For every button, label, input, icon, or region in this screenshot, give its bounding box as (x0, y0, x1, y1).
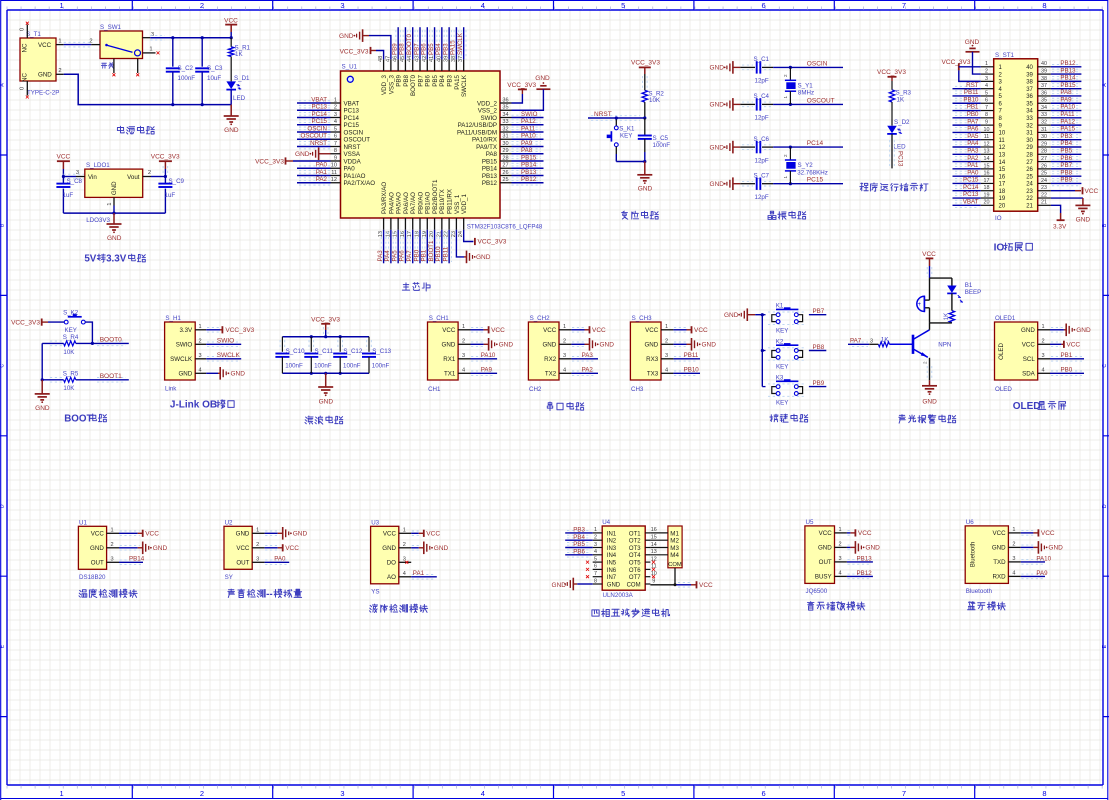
svg-text:1: 1 (563, 324, 566, 330)
svg-text:VCC: VCC (224, 18, 238, 25)
svg-text:2: 2 (783, 154, 788, 157)
svg-text:GND: GND (600, 342, 615, 349)
wire net PB8 from ST1 pin 25 (1051, 169, 1082, 178)
svg-text:PB13: PB13 (857, 555, 873, 562)
svg-text:IO: IO (994, 242, 1005, 253)
svg-text:3: 3 (151, 32, 154, 38)
svg-text:10: 10 (331, 163, 337, 169)
wire net SWCLK to U1 pin 37 (457, 27, 466, 59)
svg-text:3: 3 (1041, 353, 1044, 359)
svg-text:GND: GND (224, 127, 239, 134)
title 液体检测模块 (369, 604, 427, 612)
svg-text:35: 35 (1041, 98, 1047, 104)
wire net PB14 from U1 pin 3 (119, 556, 145, 565)
wire net PB0 to ST1 pin 8 (953, 111, 981, 120)
svg-text:12: 12 (331, 177, 337, 183)
wire net PA1 to ST1 pin 15 (953, 162, 981, 171)
ground GND at LDO (107, 213, 122, 242)
svg-text:PA4/AO: PA4/AO (388, 192, 395, 214)
svg-text:S_C6: S_C6 (754, 136, 770, 143)
svg-text:VCC_3V3: VCC_3V3 (478, 239, 507, 246)
svg-text:PA3: PA3 (377, 250, 384, 262)
svg-text:VCC_3V3: VCC_3V3 (942, 59, 971, 66)
svg-text:3: 3 (340, 789, 344, 798)
pushbutton K1 KEY, net PB7 (762, 303, 826, 335)
svg-text:3: 3 (198, 353, 201, 359)
power VCC_3V3 at BOOT (11, 319, 64, 327)
wire net PB4 to U1 pin 40 (435, 27, 444, 59)
svg-text:PA12: PA12 (1060, 118, 1075, 125)
svg-text:GND: GND (1048, 545, 1063, 552)
svg-text:PA0: PA0 (316, 162, 328, 169)
svg-text:PC15: PC15 (963, 177, 979, 184)
wire net PA10 from U6 pin 3 (1021, 555, 1052, 564)
svg-text:PA1: PA1 (316, 169, 328, 176)
svg-text:21: 21 (1026, 204, 1033, 210)
svg-text:S_D1: S_D1 (234, 75, 250, 82)
svg-text:CH2: CH2 (529, 386, 542, 393)
svg-text:Vin: Vin (88, 174, 97, 181)
wire net PA9 from ST1 pin 35 (1051, 96, 1082, 105)
wire net PB0 from U1 pin 18 (413, 230, 422, 263)
svg-text:22: 22 (1026, 196, 1033, 202)
svg-text:2: 2 (594, 535, 597, 541)
svg-text:OT2: OT2 (629, 539, 641, 545)
svg-text:C: C (1102, 364, 1108, 368)
pushbutton K3 KEY, net PB9 (762, 375, 826, 407)
svg-text:YS: YS (371, 589, 379, 596)
wire net PB0 from OLED SDA (1050, 367, 1084, 376)
svg-text:GND: GND (153, 545, 168, 552)
pushbutton K2 KEY (63, 309, 92, 343)
power VCC_3V3 at U1 VDD_2 pin 36 (507, 82, 536, 103)
svg-text:U2: U2 (225, 519, 233, 526)
svg-text:PB1/AO: PB1/AO (425, 191, 432, 214)
svg-text:3: 3 (838, 556, 841, 562)
wire net PB9 from ST1 pin 24 (1051, 177, 1082, 186)
display OLED1 (995, 315, 1051, 393)
svg-text:VCC_3V3: VCC_3V3 (340, 49, 369, 56)
svg-text:TXD: TXD (993, 559, 1006, 566)
svg-text:OT5: OT5 (629, 561, 641, 567)
svg-text:3.3V: 3.3V (179, 327, 193, 334)
svg-text:3: 3 (563, 353, 566, 359)
no-connect at U4 IN5 (586, 561, 589, 564)
svg-text:GND: GND (499, 342, 514, 349)
svg-text:OSCOUT: OSCOUT (807, 97, 835, 104)
power 3.3V at ST1 pin 21 (1051, 205, 1067, 230)
svg-text:GND: GND (535, 75, 550, 82)
svg-text:3: 3 (340, 1, 344, 10)
svg-text:Bluetooth: Bluetooth (966, 588, 993, 595)
svg-text:14: 14 (999, 160, 1006, 166)
svg-text:34: 34 (1026, 109, 1033, 115)
svg-text:VCC: VCC (442, 327, 456, 334)
svg-text:100nF: 100nF (314, 362, 332, 369)
svg-text:GND: GND (724, 312, 739, 319)
svg-text:2: 2 (148, 170, 151, 176)
svg-text:38: 38 (1041, 76, 1047, 82)
module U2 SY (224, 519, 265, 581)
LED D2 (887, 119, 910, 151)
svg-text:5: 5 (334, 126, 337, 132)
buzzer B1 BEEP (917, 278, 982, 323)
svg-text:GND: GND (607, 582, 621, 588)
wire net PA3 from U1 pin 13 (377, 230, 386, 263)
svg-text:2: 2 (200, 1, 204, 10)
svg-text:31: 31 (502, 134, 508, 140)
svg-text:10K: 10K (63, 349, 75, 356)
svg-text:1: 1 (462, 324, 465, 330)
svg-text:0: 0 (20, 28, 26, 31)
wire net PB4 to U4 IN2 (565, 534, 593, 543)
svg-text:VCC: VCC (592, 327, 606, 334)
capacitor C7 12pF with ground, net PC15 (710, 173, 843, 201)
wire net PB8 to U1 pin 45 (399, 27, 408, 59)
pushbutton K1 KEY (607, 116, 645, 161)
svg-text:5: 5 (621, 1, 625, 10)
wire net PA15 to U1 pin 38 (450, 27, 459, 59)
crystal Y1 8MHz (783, 66, 814, 106)
svg-text:PA8: PA8 (1060, 89, 1072, 96)
wire net PA7 to ST1 pin 9 (953, 118, 981, 127)
wire net PB4 from ST1 pin 29 (1051, 140, 1082, 149)
svg-text:PB4: PB4 (573, 534, 585, 541)
power VCC_3V3 at run LED (877, 69, 906, 90)
svg-text:S_CH2: S_CH2 (530, 315, 551, 322)
svg-text:8: 8 (594, 578, 597, 584)
svg-text:PA6: PA6 (967, 126, 979, 133)
svg-text:PC14: PC14 (312, 111, 328, 118)
svg-text:11: 11 (999, 138, 1006, 144)
wire net PB10 from CH3 TX (630, 315, 673, 393)
svg-text:PA7: PA7 (850, 338, 862, 345)
svg-text:Vout: Vout (127, 174, 140, 181)
svg-text:NRST: NRST (344, 144, 361, 151)
svg-text:3: 3 (76, 170, 79, 176)
ground GND at BOOT (35, 380, 50, 412)
svg-text:GND: GND (434, 545, 449, 552)
svg-text:SCL: SCL (1023, 356, 1036, 363)
svg-text:PB7: PB7 (413, 43, 420, 55)
svg-text:ULN2003A: ULN2003A (603, 592, 634, 599)
svg-text:12pF: 12pF (755, 157, 769, 164)
svg-text:2: 2 (403, 542, 406, 548)
svg-text:OT7: OT7 (629, 575, 641, 581)
wire net PA5 to ST1 pin 11 (953, 133, 981, 142)
svg-text:VCC: VCC (426, 531, 440, 538)
wire net PB13 from U5 pin 3 (847, 555, 873, 564)
svg-text:BOOT1: BOOT1 (428, 240, 435, 262)
ground GND at U1 VSS_3 pin 47 (339, 29, 391, 59)
svg-text:4: 4 (481, 1, 485, 10)
svg-text:PB4: PB4 (435, 43, 442, 55)
svg-text:100nF: 100nF (178, 75, 196, 82)
wire net BOOT1 from U1 pin 20 (428, 230, 437, 263)
ground GND at filter (318, 373, 333, 405)
wire net PB5 from ST1 pin 28 (1051, 147, 1082, 156)
svg-text:1uF: 1uF (165, 192, 176, 199)
svg-text:15: 15 (651, 535, 657, 541)
svg-text:VCC_3V3: VCC_3V3 (255, 158, 284, 165)
resistor 1K at base (878, 337, 889, 347)
svg-text:VSS_2: VSS_2 (478, 108, 498, 115)
svg-text:VCC: VCC (1041, 530, 1055, 537)
svg-text:PB11/RX: PB11/RX (447, 189, 454, 214)
svg-text:15: 15 (984, 163, 990, 169)
ground GND at U3 pin 2 (411, 542, 448, 555)
no-connect at U4 IN6 (586, 568, 589, 571)
svg-text:PB4: PB4 (1060, 140, 1072, 147)
svg-text:GND: GND (922, 399, 937, 406)
svg-text:PB1: PB1 (1061, 352, 1073, 359)
power VCC_3V3 at U1 VDD_1 pin 24 (464, 230, 507, 246)
svg-text:1K: 1K (944, 313, 950, 320)
svg-text:M1: M1 (670, 530, 679, 537)
resistor 1K inside B1 (930, 311, 955, 323)
svg-text:2: 2 (334, 105, 337, 111)
header ST1 40-pin IO (981, 52, 1051, 222)
svg-text:26: 26 (502, 170, 508, 176)
svg-text:GND: GND (710, 65, 725, 72)
svg-text:OLED: OLED (998, 342, 1005, 359)
svg-text:24: 24 (1026, 182, 1033, 188)
svg-text:PA10: PA10 (521, 133, 536, 140)
svg-text:GND: GND (638, 185, 653, 192)
svg-text:32: 32 (502, 126, 508, 132)
IC U4 ULN2003A (593, 519, 657, 599)
svg-text:PB9: PB9 (396, 74, 403, 86)
svg-text:PA7: PA7 (406, 250, 413, 262)
svg-text:GND: GND (710, 181, 725, 188)
wire net PB13 from ST1 pin 39 (1051, 67, 1082, 76)
svg-text:STM32F103C8T6_LQFP48: STM32F103C8T6_LQFP48 (467, 224, 543, 231)
svg-text:6: 6 (594, 564, 597, 570)
svg-text:COM: COM (668, 562, 682, 568)
wire net PA4 from U1 pin 14 (384, 230, 393, 263)
svg-text:PA11: PA11 (1060, 111, 1075, 118)
wire net PB3 from ST1 pin 30 (1051, 133, 1082, 142)
svg-text:9: 9 (334, 155, 337, 161)
svg-text:TX2: TX2 (545, 371, 557, 378)
svg-text:S_C1: S_C1 (754, 56, 770, 63)
svg-text:PB10: PB10 (963, 96, 979, 103)
svg-text:K1: K1 (776, 303, 784, 310)
svg-text:4: 4 (462, 368, 465, 374)
svg-text:36: 36 (1041, 90, 1047, 96)
svg-text:PB7: PB7 (813, 308, 825, 315)
svg-text:PA0: PA0 (274, 556, 286, 563)
capacitor C5 100nF (638, 118, 670, 163)
svg-text:S_C3: S_C3 (207, 65, 223, 72)
wire net PA6 from U1 pin 16 (399, 230, 408, 263)
svg-text:4: 4 (594, 549, 597, 555)
svg-text:3: 3 (334, 112, 337, 118)
svg-text:4: 4 (563, 368, 566, 374)
svg-text:9: 9 (985, 120, 988, 126)
svg-text:VCC_3V3: VCC_3V3 (225, 327, 254, 334)
svg-text:S_C5: S_C5 (653, 135, 669, 142)
svg-text:PC13: PC13 (896, 151, 903, 167)
svg-text:VCC: VCC (57, 154, 71, 161)
svg-text:2: 2 (58, 68, 61, 74)
ground GND at U6 pin 2 (1021, 541, 1063, 554)
svg-text:GND: GND (339, 33, 354, 40)
svg-text:S_T1: S_T1 (26, 31, 41, 38)
wire net PB7 from ST1 pin 26 (1051, 162, 1082, 171)
wire net PA10 from ST1 pin 34 (1051, 104, 1082, 113)
svg-text:S_C12: S_C12 (343, 348, 362, 355)
wire net VBAT to U1 pin 1 (297, 96, 331, 105)
svg-text:PB7: PB7 (417, 74, 424, 86)
svg-text:PA10/RX: PA10/RX (472, 137, 497, 144)
svg-text:GND: GND (107, 235, 122, 242)
wire net PB10 from U1 pin 21 (435, 230, 444, 263)
svg-text:1: 1 (838, 527, 841, 533)
no-connect at U4 IN7 (586, 575, 589, 578)
svg-text:2: 2 (923, 361, 928, 364)
svg-text:PB6: PB6 (421, 43, 428, 55)
svg-text:PB6: PB6 (425, 74, 432, 86)
svg-text:LED: LED (233, 95, 246, 102)
svg-text:PA7: PA7 (967, 118, 979, 125)
svg-text:GND: GND (382, 545, 396, 552)
wire net PA2 to U1 pin 12 (297, 176, 331, 185)
svg-text:8: 8 (1042, 789, 1046, 798)
resistor R3 1K (889, 90, 911, 126)
resistor R4 10K, net BOOT0 (42, 334, 129, 356)
svg-text:14: 14 (651, 542, 657, 548)
svg-text:PA5: PA5 (967, 133, 979, 140)
svg-text:A: A (0, 83, 6, 87)
svg-text:PA11: PA11 (521, 125, 536, 132)
svg-text:S_U1: S_U1 (342, 64, 358, 71)
wire net PA5 from U1 pin 15 (391, 230, 400, 263)
wire net PB15 from ST1 pin 37 (1051, 82, 1082, 91)
svg-text:1uF: 1uF (63, 192, 74, 199)
svg-text:SY: SY (225, 574, 233, 581)
svg-text:K3: K3 (776, 375, 784, 382)
wire net PB10 to ST1 pin 6 (953, 96, 981, 105)
svg-text:S_C7: S_C7 (754, 173, 770, 180)
svg-text:PA3: PA3 (967, 147, 979, 154)
svg-text:PC15: PC15 (312, 118, 328, 125)
svg-text:VSS_1: VSS_1 (454, 194, 461, 214)
svg-text:VBAT: VBAT (311, 96, 327, 103)
svg-text:VCC_3V3: VCC_3V3 (631, 60, 660, 67)
svg-text:26: 26 (1026, 167, 1033, 173)
svg-text:24: 24 (1041, 178, 1047, 184)
wire net PB3 to U1 pin 39 (442, 27, 451, 59)
LED D1 (226, 75, 250, 104)
svg-text:15: 15 (999, 167, 1006, 173)
svg-text:GND: GND (35, 405, 50, 412)
svg-text:GND: GND (542, 342, 556, 349)
wire net NRST to U1 pin 7 (297, 140, 331, 149)
pushbutton K2 KEY, net PB8 (762, 339, 826, 371)
wire net VBAT to ST1 pin 20 (953, 199, 981, 208)
svg-text:4: 4 (665, 368, 668, 374)
ground GND at U1 VSSA pin 8 (295, 147, 330, 160)
svg-text:SWCLK: SWCLK (461, 74, 468, 97)
svg-text:100nF: 100nF (653, 142, 671, 149)
svg-text:--: -- (266, 589, 273, 600)
svg-text:GND: GND (231, 370, 246, 377)
svg-text:3: 3 (594, 542, 597, 548)
wire net PA3 to ST1 pin 13 (953, 147, 981, 156)
wire net PA12 from ST1 pin 32 (1051, 118, 1082, 127)
svg-text:8: 8 (1042, 1, 1046, 10)
svg-text:Bluetooth: Bluetooth (971, 542, 977, 567)
svg-text:J-Link OB: J-Link OB (170, 400, 217, 411)
svg-text:4: 4 (198, 368, 201, 374)
svg-text:PA7/AO: PA7/AO (410, 192, 417, 214)
svg-text:4: 4 (481, 789, 485, 798)
svg-text:1: 1 (594, 527, 597, 533)
svg-text:14: 14 (984, 156, 990, 162)
wire net PB12 from U1 pin 25 (512, 176, 544, 185)
svg-text:3: 3 (256, 557, 259, 563)
svg-text:31: 31 (1041, 127, 1047, 133)
svg-text:40: 40 (1026, 65, 1033, 71)
svg-text:28: 28 (502, 155, 508, 161)
svg-text:PC13: PC13 (312, 104, 328, 111)
svg-text:PC14: PC14 (344, 115, 360, 122)
svg-text:VCC: VCC (91, 531, 105, 538)
svg-text:5V: 5V (84, 254, 96, 265)
svg-text:S_LDO1: S_LDO1 (86, 162, 110, 169)
svg-text:2: 2 (985, 68, 988, 74)
svg-text:PA1/AO: PA1/AO (344, 173, 366, 180)
svg-text:PC13: PC13 (344, 108, 360, 115)
ground GND at U1 VSS_1 pin 23 (456, 230, 490, 263)
svg-text:DS18B20: DS18B20 (79, 574, 106, 581)
svg-text:S_Y2: S_Y2 (798, 162, 814, 169)
svg-text:IN2: IN2 (607, 539, 617, 545)
svg-text:S_C2: S_C2 (178, 65, 194, 72)
wire net BOOT0 to U1 pin 44 (406, 27, 415, 59)
svg-text:1: 1 (107, 203, 113, 206)
svg-text:PB13: PB13 (1060, 67, 1076, 74)
svg-text:PA10: PA10 (1060, 104, 1075, 111)
svg-text:PB14: PB14 (521, 162, 537, 169)
svg-text:PA15: PA15 (454, 74, 461, 89)
svg-text:CH3: CH3 (631, 386, 644, 393)
svg-text:13: 13 (651, 549, 657, 555)
svg-text:GND: GND (295, 151, 310, 158)
svg-text:NRST: NRST (310, 140, 327, 147)
svg-text:VCC: VCC (491, 327, 505, 334)
svg-text:OSCOUT: OSCOUT (344, 137, 371, 144)
ground GND at alarm (922, 380, 937, 405)
ground GND at U4 pin 8 (552, 578, 593, 591)
svg-text:1: 1 (60, 1, 64, 10)
svg-text:1K: 1K (235, 51, 243, 58)
svg-text:34: 34 (502, 112, 508, 118)
svg-text:34: 34 (1041, 105, 1047, 111)
ground GND at reset (637, 162, 652, 193)
svg-text:S_ST1: S_ST1 (995, 52, 1014, 59)
svg-text:PC15: PC15 (807, 177, 824, 184)
svg-text:VBAT: VBAT (344, 100, 360, 107)
svg-text:31: 31 (1026, 131, 1033, 137)
svg-text:PB8: PB8 (399, 43, 406, 55)
no-connect at U3 pin 3 (405, 561, 408, 564)
capacitor C9 1uF (158, 177, 184, 214)
svg-text:GND: GND (442, 342, 456, 349)
svg-text:+: + (918, 302, 922, 308)
svg-text:LED: LED (894, 144, 907, 151)
